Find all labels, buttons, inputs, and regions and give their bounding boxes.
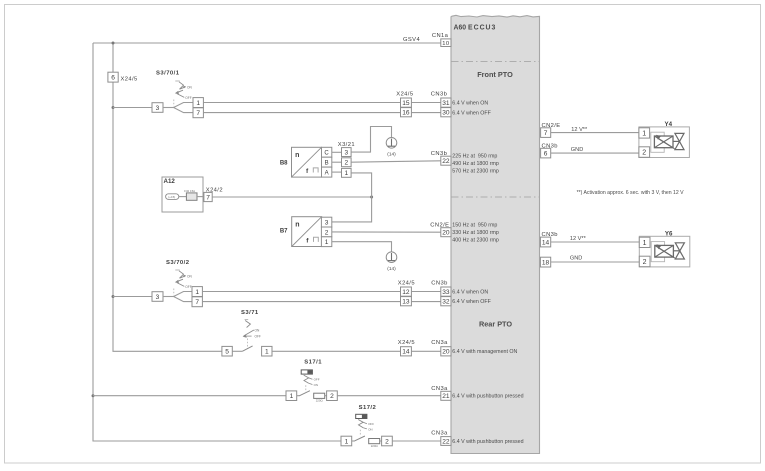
connector CN3b pin 6 bbox=[541, 143, 558, 158]
junction to S3/70/1 bbox=[112, 106, 115, 109]
connector pin 7 (S3/70/2) bbox=[192, 297, 202, 307]
wire stub (S17/1) bbox=[297, 395, 299, 397]
svg-text:5: 5 bbox=[225, 349, 229, 356]
wire stub (S17/2) bbox=[352, 440, 354, 442]
control unit A12 bbox=[162, 177, 204, 212]
svg-text:12 V**: 12 V** bbox=[571, 127, 588, 133]
wire X3/21-2 to CN3b-22 bbox=[351, 161, 441, 162]
svg-text:OFF: OFF bbox=[185, 96, 191, 100]
svg-text:6.4 V with pushbutton pressed: 6.4 V with pushbutton pressed bbox=[452, 394, 523, 400]
wire S17/1 to CN3a-21 bbox=[337, 395, 441, 397]
svg-text:2: 2 bbox=[385, 438, 389, 445]
connector pin 1 (S3/70/1) bbox=[193, 98, 203, 108]
svg-text:220Ω: 220Ω bbox=[371, 444, 379, 448]
svg-text:20: 20 bbox=[442, 349, 450, 356]
svg-text:CN3b: CN3b bbox=[431, 281, 447, 287]
svg-text:(+15): (+15) bbox=[168, 195, 175, 199]
svg-text:15: 15 bbox=[402, 100, 410, 107]
connector pin 3 (S3/70/2) bbox=[152, 292, 163, 302]
connector CN3b pin 18 bbox=[540, 257, 550, 267]
wire GSV4 horizontal bbox=[93, 42, 441, 44]
wire resistor to pin 2 (S17/2) bbox=[380, 440, 382, 442]
svg-text:330 Hz at 1800 rmp: 330 Hz at 1800 rmp bbox=[452, 230, 499, 236]
switch contact arm (S17/1) bbox=[299, 391, 310, 396]
connector CN3b pins 33/32 bbox=[431, 281, 451, 306]
svg-text:1: 1 bbox=[643, 240, 647, 247]
wire left vertical bus bbox=[93, 43, 341, 441]
connector X24/5 pin 14 bbox=[398, 340, 415, 356]
svg-text:1: 1 bbox=[290, 393, 294, 400]
connector CN3b pin 14 bbox=[540, 232, 558, 247]
sensor B8 pin A bbox=[322, 167, 332, 177]
valve Y6 bbox=[639, 230, 690, 267]
connector X24/5 pins 12/13 bbox=[398, 281, 415, 306]
wire 12V to Y6 pin 1 bbox=[551, 241, 640, 243]
switch contact arm (S3/71) bbox=[242, 346, 252, 351]
connector pin 3 (S3/70/1) bbox=[152, 103, 163, 113]
connector pin 2 (S17/1) bbox=[327, 391, 338, 401]
wire X24/5-12 to CN3b-33 bbox=[411, 291, 440, 293]
svg-text:ON: ON bbox=[187, 274, 192, 278]
wire GND to Y6 pin 2 bbox=[551, 261, 640, 263]
connector X3/21 pins 3/2/1 bbox=[338, 142, 355, 177]
svg-text:2: 2 bbox=[344, 160, 348, 167]
svg-text:S3/70/1: S3/70/1 bbox=[156, 70, 180, 76]
connector CN2/E pin 7 bbox=[541, 123, 561, 138]
svg-text:ON: ON bbox=[314, 383, 319, 387]
svg-text:Rear PTO: Rear PTO bbox=[479, 320, 512, 329]
connector CN3a pin 20 bbox=[431, 340, 451, 356]
svg-text:21: 21 bbox=[442, 393, 450, 400]
svg-text:S3/70/2: S3/70/2 bbox=[166, 260, 190, 266]
svg-text:30: 30 bbox=[442, 110, 450, 117]
svg-text:14: 14 bbox=[542, 239, 550, 246]
sensor B8 pin C bbox=[322, 147, 332, 157]
svg-text:2: 2 bbox=[330, 393, 334, 400]
svg-text:n: n bbox=[295, 152, 299, 159]
svg-text:220Ω: 220Ω bbox=[316, 399, 324, 403]
svg-text:33: 33 bbox=[442, 289, 450, 296]
svg-text:6: 6 bbox=[111, 75, 115, 82]
svg-text:6.4 V with pushbutton pressed: 6.4 V with pushbutton pressed bbox=[452, 439, 523, 445]
svg-text:6.4 V when OFF: 6.4 V when OFF bbox=[452, 110, 491, 116]
wire switch branch lower bbox=[174, 108, 193, 113]
wire resistor to pin 2 (S17/1) bbox=[325, 395, 327, 397]
switch S17/2 bbox=[356, 405, 377, 436]
svg-text:**) Activation approx. 6 sec.: **) Activation approx. 6 sec. with 3 V, … bbox=[577, 190, 685, 196]
svg-text:GSV4: GSV4 bbox=[403, 37, 420, 43]
svg-text:3: 3 bbox=[156, 294, 160, 301]
section divider below CN1a bbox=[452, 61, 540, 63]
junction at GSV4 tap bbox=[112, 42, 115, 45]
wire X24/5-13 to CN3b-32 bbox=[411, 301, 440, 303]
junction supply/sensor bus bbox=[370, 196, 373, 199]
switch S17/1 bbox=[301, 360, 322, 392]
connector CN2/E pin 20 bbox=[430, 223, 451, 237]
svg-text:A: A bbox=[325, 170, 329, 176]
svg-text:ON: ON bbox=[255, 328, 260, 332]
svg-text:2: 2 bbox=[643, 259, 647, 266]
svg-text:OFF: OFF bbox=[255, 334, 261, 338]
svg-text:6: 6 bbox=[544, 151, 548, 158]
svg-text:S17/1: S17/1 bbox=[304, 360, 322, 366]
svg-text:2: 2 bbox=[642, 150, 646, 157]
svg-text:CN3a: CN3a bbox=[431, 431, 448, 437]
svg-text:A60: A60 bbox=[454, 25, 467, 32]
wire X24/5-14 to CN3a-20 bbox=[411, 350, 440, 352]
wire X24/5-15 to CN3b-31 bbox=[411, 102, 440, 104]
svg-text:6.4 V when ON: 6.4 V when ON bbox=[452, 100, 488, 106]
svg-text:20: 20 bbox=[442, 230, 450, 237]
wire switch branch upper bbox=[174, 103, 193, 108]
svg-text:S17/2: S17/2 bbox=[359, 405, 377, 411]
svg-text:3: 3 bbox=[325, 220, 329, 227]
wire A stub bbox=[332, 171, 342, 173]
svg-text:32: 32 bbox=[442, 299, 450, 306]
svg-text:16: 16 bbox=[402, 110, 410, 117]
svg-text:1: 1 bbox=[325, 239, 329, 246]
wire X24/2 supply to sensors bbox=[212, 196, 371, 198]
wire X3/21-3 to ground bbox=[351, 127, 391, 153]
svg-text:OFF: OFF bbox=[314, 378, 320, 382]
svg-text:12 V**: 12 V** bbox=[570, 236, 587, 242]
svg-text:OFF: OFF bbox=[185, 285, 191, 289]
svg-text:OFF: OFF bbox=[368, 422, 374, 426]
wire C stub bbox=[332, 151, 342, 153]
connector pin 1 (S17/1) bbox=[286, 391, 297, 401]
wire to S17/1 pin 1 bbox=[93, 395, 286, 397]
wire to contact (S3/71) bbox=[232, 350, 242, 352]
connector pin 7 (S3/70/1) bbox=[193, 108, 203, 118]
svg-text:10: 10 bbox=[442, 41, 449, 47]
svg-text:1: 1 bbox=[642, 131, 646, 138]
svg-text:7: 7 bbox=[196, 110, 200, 117]
wire B7-1 to ground bbox=[332, 242, 392, 252]
svg-text:ON: ON bbox=[368, 427, 373, 431]
svg-text:Front PTO: Front PTO bbox=[477, 70, 513, 79]
connector CN3b pins 31/30 bbox=[431, 91, 451, 116]
svg-text:7: 7 bbox=[544, 130, 548, 137]
wire to S3/70/1 pin 3 bbox=[113, 107, 152, 109]
svg-text:B7: B7 bbox=[280, 229, 288, 235]
sensor B7 pin 1 bbox=[321, 237, 331, 247]
svg-text:7: 7 bbox=[206, 194, 210, 201]
wire pin7 to X24/5-13 bbox=[202, 301, 400, 303]
svg-text:A12: A12 bbox=[164, 178, 176, 185]
svg-text:X24/5: X24/5 bbox=[121, 76, 138, 82]
svg-text:22: 22 bbox=[442, 438, 450, 445]
wire S17/2 to CN3a-22 bbox=[392, 440, 441, 442]
switch S3/70/2 bbox=[166, 260, 192, 295]
switch S3/71 bbox=[241, 310, 261, 349]
resistor (S17/1) bbox=[314, 393, 325, 402]
resistor (S17/2) bbox=[369, 439, 380, 448]
valve Y4 bbox=[639, 121, 690, 158]
connector CN1a pin 10 bbox=[432, 33, 451, 47]
section divider between Front and Rear PTO bbox=[452, 196, 540, 198]
svg-text:GND: GND bbox=[571, 147, 583, 153]
svg-text:X24/5: X24/5 bbox=[398, 281, 415, 287]
svg-text:7: 7 bbox=[195, 299, 199, 306]
wire X24/5-16 to CN3b-30 bbox=[411, 112, 440, 114]
connector CN3b pin 22 bbox=[431, 151, 451, 165]
wire X3/21-1 supply down to B7 pin 3 bbox=[332, 173, 372, 222]
connector CN3a pin 21 bbox=[431, 386, 451, 400]
wire switch common (S3/70/2) bbox=[163, 296, 174, 298]
svg-text:CN1a: CN1a bbox=[432, 33, 449, 39]
connector X24/5 pin 6 bbox=[108, 72, 138, 82]
svg-text:3: 3 bbox=[156, 105, 160, 112]
svg-text:(14): (14) bbox=[387, 266, 396, 272]
svg-text:1: 1 bbox=[196, 100, 200, 107]
switch contact arm (S17/2) bbox=[354, 436, 365, 441]
svg-text:X24/5: X24/5 bbox=[398, 340, 415, 346]
svg-text:CN3b: CN3b bbox=[431, 91, 447, 97]
svg-text:14: 14 bbox=[402, 349, 410, 356]
junction S17/1 branch bbox=[92, 394, 95, 397]
wire B stub bbox=[332, 161, 342, 163]
junction to S3/70/2 bbox=[112, 295, 115, 298]
wire GND to Y4 pin 2 bbox=[551, 152, 639, 154]
sensor B8 pin B bbox=[322, 157, 332, 167]
svg-text:S3/71: S3/71 bbox=[241, 310, 259, 316]
svg-text:B8: B8 bbox=[280, 161, 288, 167]
wire inner vertical bus bbox=[113, 43, 222, 351]
svg-text:X24/5: X24/5 bbox=[396, 91, 413, 97]
wire 12V to Y4 pin 1 bbox=[551, 132, 639, 134]
svg-text:3: 3 bbox=[344, 149, 348, 156]
connector pin 1 (S3/70/2) bbox=[192, 287, 202, 297]
connector X24/5 pins 15/16 bbox=[396, 91, 413, 116]
wire to S3/70/2 pin 3 bbox=[113, 296, 152, 298]
ground (14) for B8 bbox=[386, 138, 397, 149]
ground (14) for B7 bbox=[386, 252, 397, 263]
svg-text:n: n bbox=[295, 222, 299, 229]
sensor B7 pin 2 bbox=[321, 227, 331, 237]
connector pin 2 (S17/2) bbox=[382, 436, 393, 446]
wire pin7 to X24/5-16 bbox=[203, 112, 400, 114]
wire pin1 to X24/5-12 bbox=[202, 291, 400, 293]
svg-text:150 Hz at 950 rmp: 150 Hz at 950 rmp bbox=[452, 222, 497, 228]
svg-text:C: C bbox=[324, 150, 329, 156]
svg-text:B: B bbox=[325, 160, 329, 166]
svg-text:6.4 V when ON: 6.4 V when ON bbox=[452, 289, 488, 295]
wire branch upper (S3/70/2) bbox=[174, 292, 192, 297]
switch S3/70/1 bbox=[156, 70, 192, 106]
ECU A60 ECCU3 bbox=[451, 15, 540, 453]
sensor B7 pin 3 bbox=[321, 217, 331, 227]
svg-text:1: 1 bbox=[265, 349, 269, 356]
connector pin 1 (S17/2) bbox=[341, 436, 352, 446]
svg-text:GND: GND bbox=[570, 256, 582, 262]
wire S3/71 to X24/5-14 bbox=[272, 350, 401, 352]
connector pin 5 (S3/71) bbox=[222, 346, 232, 356]
wire switch common bbox=[163, 107, 174, 109]
svg-text:22: 22 bbox=[442, 158, 450, 165]
svg-text:6.4 V when OFF: 6.4 V when OFF bbox=[452, 299, 491, 305]
connector X24/2 pin 7 bbox=[204, 187, 223, 201]
wire B7-2 to CN2/E-20 bbox=[332, 231, 441, 233]
svg-text:1: 1 bbox=[195, 289, 199, 296]
wire pin1 to X24/5-15 bbox=[203, 102, 400, 104]
svg-text:6.4 V with management ON: 6.4 V with management ON bbox=[452, 349, 517, 355]
svg-text:13: 13 bbox=[402, 299, 410, 306]
connector CN3a pin 22 bbox=[431, 431, 451, 446]
svg-text:1: 1 bbox=[345, 438, 349, 445]
svg-text:1: 1 bbox=[344, 170, 348, 177]
wire branch lower (S3/70/2) bbox=[174, 297, 192, 302]
connector pin 1 (S3/71) bbox=[262, 346, 272, 356]
svg-text:31: 31 bbox=[442, 100, 450, 107]
svg-text:2: 2 bbox=[325, 229, 329, 236]
svg-text:CN3a: CN3a bbox=[431, 340, 448, 346]
svg-text:12: 12 bbox=[402, 289, 410, 296]
svg-text:(14): (14) bbox=[387, 151, 396, 157]
svg-text:18: 18 bbox=[542, 260, 550, 267]
svg-text:570 Hz at 2300 rmp: 570 Hz at 2300 rmp bbox=[452, 168, 499, 174]
svg-text:225 Hz at 950 rmp: 225 Hz at 950 rmp bbox=[452, 153, 497, 159]
svg-text:ON: ON bbox=[187, 85, 192, 89]
svg-text:490 Hz at 1800 rmp: 490 Hz at 1800 rmp bbox=[452, 161, 499, 167]
svg-text:400 Hz at 2300 rmp: 400 Hz at 2300 rmp bbox=[452, 237, 499, 243]
svg-text:ECCU3: ECCU3 bbox=[468, 25, 496, 32]
